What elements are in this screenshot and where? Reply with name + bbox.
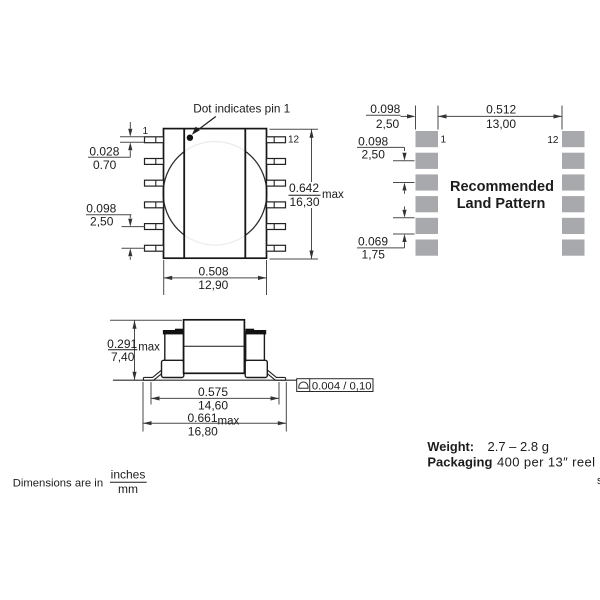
svg-text:Dot indicates pin 1: Dot indicates pin 1 [193,102,290,116]
svg-text:inches: inches [111,468,146,482]
svg-text:1: 1 [441,135,447,146]
svg-text:7,40: 7,40 [111,350,135,364]
svg-text:0.069: 0.069 [358,234,388,248]
0.291 height [110,319,182,321]
svg-text:2,50: 2,50 [376,117,400,131]
arrows for 0.098 pitch [128,219,132,227]
left pin bend lines [155,137,157,251]
left black cap [163,330,184,334]
right black cap [245,330,266,334]
left pins 1-6 [145,137,164,251]
right inner vertical line [244,129,246,259]
0.069 pad height [404,207,406,210]
svg-text:0.004 / 0,10: 0.004 / 0,10 [312,381,372,393]
seating plane baseline [113,379,297,381]
svg-text:0.098: 0.098 [370,102,400,116]
svg-text:max: max [322,189,344,201]
svg-text:12: 12 [288,135,300,146]
right gull-wing lead [267,370,285,380]
svg-text:Recommended: Recommended [450,179,554,195]
svg-text:max: max [218,416,240,428]
right pins 12-7 [267,137,286,251]
0.642 height dim [270,128,319,130]
right pin bend lines [273,137,275,251]
central body [184,320,245,374]
left pitch dim leaders [357,146,405,148]
svg-text:2,50: 2,50 [90,214,114,228]
pin-1 dot [187,135,193,141]
0.098 pad width leader [366,114,401,116]
svg-text:0.098: 0.098 [86,201,116,215]
coplanarity callout [297,379,373,393]
0.508 width dim [163,260,165,295]
svg-text:mm: mm [118,482,138,496]
0.098/2.50 pin pitch [86,214,132,216]
central mid line [184,345,245,347]
left foot block [162,360,184,377]
svg-text:0.70: 0.70 [93,158,117,172]
arrows 0.508 [164,276,173,280]
svg-text:max: max [138,342,160,354]
svg-text:Weight:: Weight: [427,439,474,454]
left gull-wing lead [143,370,161,380]
svg-text:0.028: 0.028 [89,145,119,159]
0.028/0.70 pin thickness [120,136,145,138]
svg-text:0.575: 0.575 [198,385,228,399]
package body outline [164,129,267,259]
svg-text:13,00: 13,00 [486,117,516,131]
right post [246,333,265,361]
arrows for 0.028 [128,129,132,137]
svg-text:0.661: 0.661 [187,411,217,425]
svg-text:12: 12 [547,135,559,146]
0.512 span dim [438,115,562,117]
verticals above pads [415,106,417,130]
svg-text:400 per 13″ reel: 400 per 13″ reel [497,454,595,469]
svg-text:0.512: 0.512 [486,103,516,117]
svg-text:16,30: 16,30 [289,195,319,209]
svg-text:2.7 – 2.8 g: 2.7 – 2.8 g [488,439,549,454]
left post [165,333,184,361]
bobbin middle translucent mask (faint circle shows through) [185,127,245,259]
left inner vertical line [183,129,185,259]
core circle (toroid) [163,142,267,246]
svg-text:1,75: 1,75 [362,247,386,261]
svg-text:2,50: 2,50 [362,147,386,161]
svg-text:14,60: 14,60 [198,398,228,412]
right foot block [245,360,267,377]
svg-text:Land Pattern: Land Pattern [457,196,546,212]
svg-text:12,90: 12,90 [198,278,228,292]
0.575 [150,382,152,405]
svg-text:0.642: 0.642 [289,181,319,195]
0.661 [142,382,144,432]
svg-text:16,80: 16,80 [188,425,218,439]
svg-text:1: 1 [143,126,149,137]
svg-text:0.508: 0.508 [198,264,228,278]
svg-text:Packaging: Packaging [427,454,492,469]
svg-text:Dimensions are in: Dimensions are in [13,477,103,489]
arrows 0.642 [309,129,313,138]
